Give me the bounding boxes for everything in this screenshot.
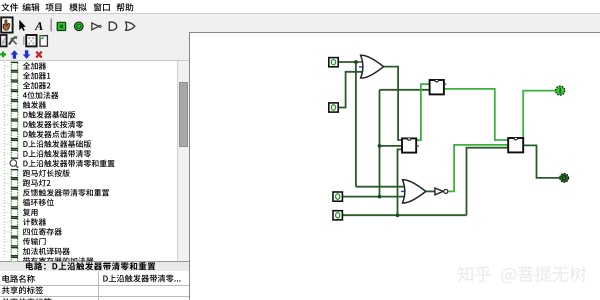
node A junction dot [354,60,358,64]
wire pin3 net to U2 pin L2 [380,145,403,147]
wire pin4 net up to U3 pin L3 [467,148,509,216]
or-gate G2 [400,180,426,203]
output pin O2 (value 0) [560,174,569,183]
or-gate G1 [358,55,384,78]
wire horizontal into OR2 upper input [356,186,404,188]
subcircuit U3 (D flip-flop) [508,138,523,152]
toolbar2: subcircuit chip button selected [26,35,36,46]
wire pin4 long horizontal [343,214,467,216]
tree guide dotted line [3,62,5,259]
not-gate G3 [435,188,448,195]
input pin P2 [329,103,338,112]
input pin P1 [329,58,338,67]
toolbar: separator [50,18,52,31]
wire U3 right pin to output pin O2 [523,145,560,178]
wire OR1 output to U2 pin L1 [384,67,403,140]
wire OR2 output to NOT1 [426,190,435,192]
wire pin3 to OR2 lower input [343,196,404,198]
node C junction dot [378,195,382,199]
wire pin1 to OR1 input [338,61,358,63]
wire pin4 net up to U2 pin L3 [398,149,403,215]
toolbar3: move down (blue arrow) [23,50,31,58]
toolbar2: page icon [40,36,47,47]
toolbar2: chip button selected [0,35,6,46]
wire U1 output to U3 pin L1 (high) [444,89,509,140]
toolbar: OR gate icon [126,22,135,30]
input pin P3 [333,192,342,201]
toolbar: AND gate icon [109,22,116,30]
wire pin3 net to U1 pin L2 [380,89,431,91]
toolbar3: delete (red x) [36,52,42,58]
toolbar: text tool A [35,22,43,30]
toolbar: input pin icon [57,22,65,30]
toolbar2: separator [23,36,25,45]
toolbar2: hammer icon [9,36,17,44]
wire pin2 to OR1 lower input [338,72,361,108]
subcircuit U2 (D flip-flop) [402,138,419,152]
input pin P4 [333,211,342,220]
toolbar3: add (green plus) [0,52,6,58]
wire U3 top pin to output pin O1 (high) [523,91,556,139]
node D junction dot [396,213,400,217]
node B junction dot [378,144,382,148]
wire vertical from node A down to OR2 input feed [355,62,357,187]
toolbar: output pin icon [75,22,84,31]
wire vertical pin3 net up [379,90,381,197]
toolbar: select arrow tool [19,20,25,31]
toolbar3: move up (blue arrow) [11,50,19,58]
toolbar: NOT gate icon [92,23,101,30]
subcircuit U1 (D flip-flop) [430,80,447,94]
wire U2 pin R1 to U1 pin L1 (high) [416,84,430,140]
output pin O1 (value 1) [556,86,565,95]
wire NOT1 output to U3 pin L2 (high) [448,145,509,192]
toolbar: poke tool button (selected) [1,17,12,32]
